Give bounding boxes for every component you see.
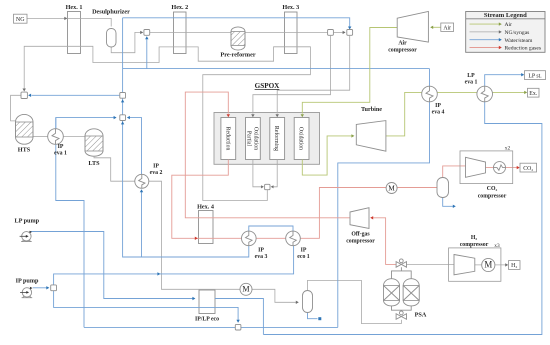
wire main steam header	[123, 68, 430, 70]
wire IP/LP eco outlet to bottom header	[215, 299, 263, 335]
legend row Reduction gases	[470, 46, 542, 52]
wire turbine exhaust through IP eva 4 and LP eva 1 to exhaust	[386, 91, 527, 136]
label GSPOX	[255, 82, 281, 90]
label x2	[505, 146, 511, 152]
turbine	[356, 121, 386, 152]
label H2 compressor	[460, 235, 489, 248]
vessel Pre-reformer	[231, 27, 245, 50]
svg-text:Oxidation: Oxidation	[298, 127, 304, 150]
wire knock-out drum top to PSA bottom valve	[308, 280, 402, 323]
svg-text:Reforming: Reforming	[273, 126, 280, 151]
wire LP eva 1 steam to LP st.	[485, 73, 525, 86]
svg-text:Water/steam: Water/steam	[505, 38, 533, 44]
label PSA	[415, 312, 427, 319]
svg-text:Air: Air	[398, 41, 407, 47]
wire Desulphurizer outlet to mixer node	[111, 31, 143, 53]
wire steam node to HTS mixer	[28, 94, 119, 97]
label IP eva 1	[54, 144, 67, 157]
svg-text:eva 1: eva 1	[465, 80, 478, 86]
heat exchanger circle IP eva 1	[48, 129, 64, 145]
label Desulphurizer	[92, 8, 130, 15]
label IP/LP eco	[195, 317, 219, 323]
label Air compressor	[388, 41, 417, 54]
svg-text:NG: NG	[16, 17, 25, 23]
wire splitter to steam mixer node	[334, 31, 346, 34]
wire Reforming outlet to valve	[271, 160, 278, 189]
svg-text:compressor: compressor	[460, 242, 489, 248]
wire condensate lower header to LP eva 1	[263, 102, 542, 335]
valve PSA top	[396, 259, 406, 267]
svg-text:compressor: compressor	[478, 194, 507, 200]
box LP steam product	[525, 71, 546, 80]
compressor box H2 compressor train	[449, 248, 501, 281]
wire steam-mixed NG down to Reforming	[276, 36, 350, 118]
heat exchanger circle IP eva 2	[135, 174, 149, 188]
label Turbine	[361, 106, 382, 113]
legend row Air	[470, 22, 513, 28]
wire valve outlet through Hex.3 Hex.2 Hex.1 to HTS mixer	[23, 46, 311, 200]
svg-text:IP/LP eco: IP/LP eco	[195, 317, 219, 323]
box exhaust	[528, 88, 540, 97]
wire Partial Oxidation outlet to valve	[253, 160, 264, 189]
heat exchanger circle IP eva 4	[422, 86, 438, 102]
wire IP eva 2 steam to collector node	[127, 116, 142, 174]
wire LP pump to IP/LP eco	[30, 232, 195, 301]
svg-text:Stream Legend: Stream Legend	[484, 12, 527, 19]
label Hex. 3	[282, 4, 299, 11]
wire branch to IP eva 2 feed	[140, 189, 143, 257]
label x3	[494, 243, 500, 249]
svg-text:CO₂: CO₂	[523, 166, 533, 172]
svg-text:IP: IP	[153, 164, 159, 170]
wire splitter down branch to header node	[54, 291, 240, 323]
motor M syngas expander	[240, 283, 252, 295]
label Hex. 4	[197, 203, 214, 210]
box NG source	[14, 14, 28, 23]
svg-text:Hex. 1: Hex. 1	[66, 4, 83, 11]
svg-text:compressor: compressor	[388, 48, 417, 54]
legend row NG/syngas	[470, 30, 530, 36]
svg-text:eva 1: eva 1	[54, 151, 67, 157]
node NG steam mixer	[144, 30, 150, 36]
wire PSA top manifold	[392, 267, 412, 279]
wire air compressor outlet to Oxidation reactor	[301, 28, 398, 118]
wire IP eva 1 to LTS	[63, 136, 85, 138]
heat exchanger Hex. 2	[174, 12, 187, 54]
wire IP eva 1 riser and feed from bottom header	[56, 116, 117, 328]
label LP eva 1	[465, 73, 478, 86]
svg-text:IP: IP	[435, 103, 441, 109]
svg-text:Air: Air	[443, 25, 451, 31]
svg-text:Pre-reformer: Pre-reformer	[220, 52, 255, 59]
vessel LTS shift reactor	[85, 129, 103, 156]
label Hex. 2	[171, 4, 188, 11]
wire knock-out drum water drain	[308, 313, 322, 320]
svg-text:IP pump: IP pump	[16, 278, 39, 285]
cooler circle CO2 compressor	[494, 162, 506, 174]
svg-text:GSPOX: GSPOX	[255, 82, 281, 90]
legend row Water/steam	[470, 38, 533, 44]
wire Air source into air compressor	[430, 26, 441, 29]
svg-text:Off-gas: Off-gas	[351, 232, 370, 238]
svg-text:Reduction: Reduction	[224, 127, 230, 151]
vessel PSA adsorber 2	[403, 279, 419, 306]
svg-text:IP: IP	[58, 144, 64, 150]
svg-text:H₂: H₂	[471, 235, 478, 241]
pump LP pump	[20, 231, 32, 242]
svg-text:HTS: HTS	[18, 147, 31, 154]
label Off-gas compressor	[346, 232, 375, 245]
vessel HTS shift reactor	[16, 114, 34, 144]
svg-text:M: M	[242, 285, 249, 294]
heat exchanger Hex. 1	[68, 12, 81, 54]
label CO2 compressor	[478, 186, 507, 200]
svg-text:LP: LP	[467, 73, 475, 79]
svg-text:M: M	[484, 259, 492, 269]
svg-text:eva 2: eva 2	[150, 170, 163, 176]
label IP eva 4	[432, 103, 445, 116]
pump IP pump	[20, 287, 32, 298]
svg-text:Partial: Partial	[246, 131, 252, 147]
svg-text:IP: IP	[301, 248, 307, 254]
economizer IP/LP eco	[199, 290, 215, 314]
box CO2 product	[520, 163, 537, 172]
vessel CO2 knock-out drum	[437, 178, 449, 198]
svg-text:x3: x3	[494, 243, 500, 249]
GSPOX reactor block background	[214, 113, 320, 165]
node IP pump splitter	[51, 285, 57, 291]
svg-text:Air: Air	[505, 22, 513, 28]
wire CO2 knock-out drum water drain	[443, 198, 456, 208]
svg-text:H₂: H₂	[511, 263, 517, 269]
svg-text:LP st.: LP st.	[528, 73, 542, 79]
wire IP eva 4 riser to blowdown header	[338, 69, 430, 328]
wire condensate upper header	[84, 326, 338, 328]
wire HTS outlet to IP eva 1	[33, 136, 48, 138]
wire Oxidation outlet to turbine	[302, 134, 354, 175]
heat exchanger Hex. 4	[199, 211, 214, 244]
svg-text:CO₂: CO₂	[487, 186, 498, 192]
svg-text:Ex.: Ex.	[529, 91, 537, 97]
svg-text:x2: x2	[505, 146, 511, 152]
label Hex. 1	[66, 4, 83, 11]
wire mixer to Pre-reformer through Hex.2	[150, 31, 231, 33]
node steam splitter top	[120, 93, 126, 99]
reactor Reduction	[221, 118, 236, 160]
label Pre-reformer	[220, 52, 255, 59]
svg-text:PSA: PSA	[415, 312, 427, 319]
wire IP eva 3 to IP eco 1 crossover	[249, 226, 293, 232]
node splitter after Pre-reformer	[328, 30, 334, 36]
motor M H2 compressor	[482, 258, 495, 271]
label LTS	[88, 160, 100, 167]
wire mixer to HTS inlet	[11, 95, 21, 121]
label IP eco 1	[297, 248, 309, 261]
svg-text:LP pump: LP pump	[15, 218, 40, 225]
heat exchanger circle LP eva 1	[477, 86, 493, 102]
label IP eva 3	[255, 248, 268, 261]
svg-text:eco 1: eco 1	[297, 254, 309, 260]
heat exchanger circle IP eva 3	[242, 231, 257, 246]
compressor Air compressor	[397, 11, 428, 42]
wire steam to NG mixer node	[145, 36, 148, 68]
wire Reduction outlet through Hex.4, IP eva 3, IP eco 1, motor M to CO2 knock-out drum	[172, 160, 437, 241]
svg-text:Oxidation: Oxidation	[253, 127, 259, 150]
box Air source	[441, 23, 454, 31]
reactor Reforming	[270, 118, 285, 160]
svg-text:Turbine: Turbine	[361, 106, 382, 113]
vessel PSA adsorber 1	[384, 279, 400, 306]
svg-text:compressor: compressor	[346, 239, 375, 245]
heat exchanger circle IP eco 1	[286, 231, 301, 246]
wire main riser to IP eva 3 feed	[123, 18, 249, 257]
label LP pump	[15, 218, 40, 225]
wire Pre-reformer outlet to splitter square	[245, 31, 327, 33]
wire IP pump to splitter square	[33, 286, 50, 289]
reactor Oxidation	[294, 118, 309, 160]
heat exchanger Hex. 3	[285, 12, 298, 54]
wire CO2 knock-out drum to CO2 compressor and CO2 product	[443, 166, 520, 178]
valve GSPOX outlet mixing valve	[265, 184, 270, 189]
svg-text:Hex. 3: Hex. 3	[282, 4, 299, 11]
svg-text:eva 4: eva 4	[432, 110, 445, 116]
wire PSA bottom manifold	[392, 306, 412, 314]
wire splitter branch down to Partial Oxidation	[251, 36, 330, 118]
svg-text:Hex. 4: Hex. 4	[197, 203, 214, 210]
wire off-gas compressor outlet to Reduction reactor	[185, 92, 350, 218]
node bottom header junction	[235, 324, 241, 330]
valve PSA bottom	[396, 311, 406, 319]
label IP eva 2	[150, 164, 163, 177]
node steam collector	[120, 115, 126, 121]
wire PSA product to H2 compressor	[407, 263, 509, 266]
box H2 product	[509, 261, 521, 270]
svg-text:LTS: LTS	[88, 160, 100, 167]
wire NG feed to Hex.1 and Desulphurizer	[27, 17, 111, 27]
wire IP eva 2 outlet through motor M to knock-out drum	[149, 181, 299, 304]
svg-text:IP: IP	[258, 248, 264, 254]
node steam mixer before Reforming	[347, 30, 353, 36]
wire LTS outlet to IP eva 2	[94, 157, 135, 182]
svg-text:eva 3: eva 3	[255, 254, 268, 260]
motor M reduction gas	[386, 183, 397, 194]
wire riser arrows at collector nodes	[121, 99, 124, 124]
vessel syngas knock-out drum	[303, 291, 313, 313]
svg-text:NG/syngas: NG/syngas	[505, 30, 530, 36]
stream legend box	[466, 12, 545, 53]
wire steam supply header top	[123, 18, 352, 30]
node mixer before HTS	[21, 92, 27, 98]
svg-text:Desulphurizer: Desulphurizer	[92, 8, 130, 15]
reactor Partial Oxidation	[246, 118, 261, 160]
svg-text:Reduction gases: Reduction gases	[505, 46, 542, 52]
compressor Off-gas compressor	[350, 208, 369, 229]
wire splitter to IP eco 1 feed	[54, 246, 294, 285]
vessel Desulphurizer	[107, 29, 117, 48]
label IP pump	[16, 278, 39, 285]
wire PSA purge to off-gas compressor	[370, 216, 396, 264]
svg-text:Hex. 2: Hex. 2	[171, 4, 188, 11]
svg-text:M: M	[388, 183, 395, 192]
compressor box CO2 compressor train	[460, 151, 513, 184]
label HTS	[18, 147, 31, 154]
